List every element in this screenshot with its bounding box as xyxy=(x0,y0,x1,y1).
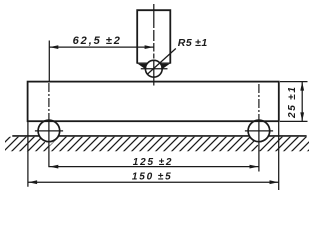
svg-text:125 ±2: 125 ±2 xyxy=(133,157,174,168)
svg-text:25 ±1: 25 ±1 xyxy=(287,85,298,119)
svg-text:62,5 ±2: 62,5 ±2 xyxy=(73,35,122,47)
svg-text:R5 ±1: R5 ±1 xyxy=(178,37,208,49)
svg-text:150 ±5: 150 ±5 xyxy=(132,171,173,182)
